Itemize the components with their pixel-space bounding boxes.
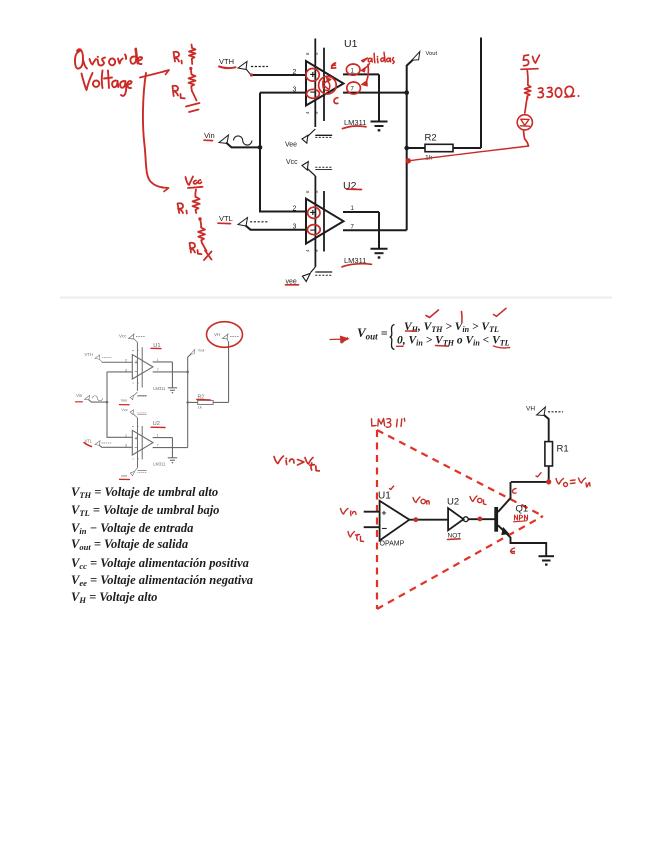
svg-text:Vee = Voltaje alimentación neg: Vee = Voltaje alimentación negativa [71,573,253,588]
svg-text:U2: U2 [447,497,459,508]
svg-text:R1: R1 [557,444,569,455]
svg-text:+: + [382,508,387,518]
svg-text:0, Vin > VTH o Vin < VTL: 0, Vin > VTH o Vin < VTL [397,335,510,348]
svg-text:Q1: Q1 [516,504,529,515]
svg-text:U1: U1 [378,491,391,502]
svg-text:−: − [382,524,388,535]
svg-text:VH, VTH > Vin > VTL: VH, VTH > Vin > VTL [404,321,499,334]
svg-text:VH: VH [214,332,220,337]
svg-text:Vin − Voltaje de entrada: Vin − Voltaje de entrada [71,521,193,536]
svg-text:Vcc = Voltaje alimentación pos: Vcc = Voltaje alimentación positiva [71,556,249,571]
svg-text:OPAMP: OPAMP [380,541,405,548]
svg-text:VTL = Voltaje de umbral bajo: VTL = Voltaje de umbral bajo [71,503,219,518]
svg-text:Vcc: Vcc [119,334,127,339]
svg-text:VH: VH [526,406,535,413]
svg-text:VTH = Voltaje de umbral alto: VTH = Voltaje de umbral alto [71,485,218,500]
